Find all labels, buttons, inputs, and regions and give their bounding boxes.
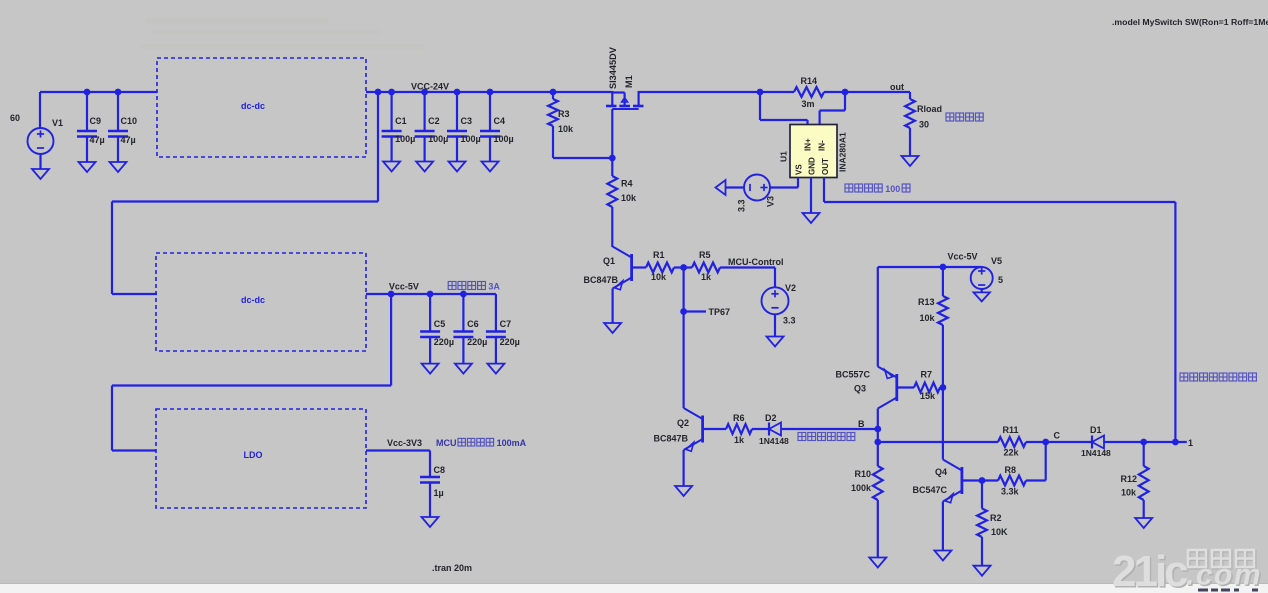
watermark dianziwang [1188,550,1255,568]
svg-text:3A: 3A [488,282,500,292]
resistor R2 [977,481,1008,566]
wire Q1 emitter to ground [611,289,613,324]
net label MCU-Control [728,257,784,267]
svg-text:Q2: Q2 [677,418,689,428]
svg-text:dc-dc: dc-dc [241,295,265,305]
wire C to D1 [1046,441,1092,443]
resistor R6 [726,413,752,445]
ground below C5 [422,364,439,374]
svg-text:21ic: 21ic [1112,547,1188,593]
annotation short-circuit protection [946,113,983,121]
svg-text:220µ: 220µ [467,337,487,347]
svg-text:MCU: MCU [436,438,457,448]
wire D2 to node B [781,428,878,430]
svg-text:U1: U1 [779,151,789,162]
ground below R2 [974,566,991,576]
wire R11 to C node [1026,441,1046,443]
wire V2 to ground [774,314,776,336]
svg-text:Q1: Q1 [603,256,615,266]
diode D2 1N4148 [759,413,789,446]
svg-text:Rload: Rload [917,104,942,114]
svg-text:R5: R5 [699,250,711,260]
svg-text:BC557C: BC557C [835,370,870,380]
svg-text:10k: 10k [920,313,936,323]
wire R14 to out node [824,91,910,93]
svg-text:3.3: 3.3 [737,199,747,212]
resistor Rload [905,92,942,156]
capacitor C10 [108,92,137,162]
svg-text:R1: R1 [653,250,665,260]
resistor R12 [1120,442,1148,518]
node dot B lower [874,439,881,446]
svg-text:R3: R3 [558,109,570,119]
wire R6 to D2 [752,428,769,430]
annotation self-lock output signal [798,433,855,441]
voltage source V5 [971,256,1003,292]
node dot Vcc5 feed [388,291,395,298]
svg-text:30: 30 [919,120,929,130]
svg-text:1N4148: 1N4148 [1081,448,1111,458]
ground left of V3 [716,180,726,195]
node dot R3 tap [550,89,557,96]
wire VS pin to V3 [770,178,798,188]
svg-text:R14: R14 [801,76,818,86]
svg-text:C8: C8 [434,465,446,475]
svg-text:1k: 1k [701,272,712,282]
svg-text:3m: 3m [802,99,815,109]
net label Vcc-3V3 [387,438,422,448]
svg-text:100µ: 100µ [428,134,448,144]
svg-text:1N4148: 1N4148 [759,436,789,446]
svg-text:220µ: 220µ [500,337,520,347]
wire R1 to junction [674,266,692,268]
wire box2 out Vcc-5V rail [366,293,496,295]
net label out [890,82,904,92]
resistor R5 [692,250,720,282]
svg-text:VCC-24V: VCC-24V [411,82,449,92]
svg-text:1: 1 [1188,438,1193,448]
svg-text:D2: D2 [765,413,777,423]
svg-text:IN-: IN- [818,140,827,151]
wire rail to Q3 emitter [877,267,879,367]
resistor R7 [914,370,940,402]
ground below U1 [803,213,820,223]
capacitor C4 [480,92,514,162]
ground below C2 [416,162,433,172]
ground below C7 [487,364,504,374]
cut text bottom edge [1198,589,1258,592]
voltage source V1 [10,92,63,169]
ground below R12 [1135,518,1152,528]
svg-text:C10: C10 [121,116,138,126]
svg-text:V3: V3 [766,196,776,207]
ground below C4 [482,162,499,172]
wire IN+ sense [760,92,808,125]
voltage source V2 [762,283,797,326]
svg-text:Q3: Q3 [854,384,866,394]
svg-text:100µ: 100µ [395,134,415,144]
resistor R13 [918,267,948,388]
wire IN- sense [820,92,845,125]
wire Vcc5 feed to LDO [112,294,391,451]
wire junction down to Q2 collector [682,268,684,409]
wire D1 to node 1 [1104,441,1187,443]
spice directive .model [1112,17,1268,27]
watermark .com [1186,559,1264,593]
ground below V5 [974,292,990,301]
node dot R14 left [757,89,764,96]
svg-text:1µ: 1µ [434,488,444,498]
diode D1 1N4148 [1081,425,1111,458]
node dot C [1042,439,1049,446]
svg-text:100mA: 100mA [497,438,527,448]
node dot B upper [874,426,881,433]
resistor R4 [607,158,637,247]
svg-text:100k: 100k [851,483,872,493]
ground below C6 [455,364,472,374]
ground below V2 [767,337,784,347]
node dot at x378 rail [375,89,382,96]
mosfet M1 SI3445DV [606,46,644,109]
svg-text:100: 100 [885,184,900,194]
svg-text:5: 5 [998,275,1003,285]
wire R5 to V2 [720,268,775,288]
wire Q4 base to junction [962,479,998,481]
ground below C8 [422,517,439,527]
svg-text:100µ: 100µ [461,134,481,144]
spice directive .tran [432,563,472,573]
svg-text:BC547C: BC547C [912,485,947,495]
svg-text:C2: C2 [428,116,440,126]
ground below R10 [869,558,886,568]
svg-text:R12: R12 [1120,474,1137,484]
svg-text:Vcc-5V: Vcc-5V [948,252,978,262]
net label 1 [1188,438,1193,448]
svg-text:R11: R11 [1003,425,1019,435]
transistor Q3 BC557C [835,367,896,409]
transistor Q1 BC847B [583,247,631,290]
resistor R11 [998,425,1026,458]
svg-text:C5: C5 [434,319,446,329]
svg-text:C1: C1 [395,116,407,126]
svg-text:10k: 10k [1121,488,1137,498]
ground below C1 [383,162,400,172]
transistor Q2 BC847B [653,408,702,451]
wire M1 drain to R14 [639,91,794,93]
net label TP67 [709,307,731,317]
transistor Q4 BC547C [912,460,961,503]
ground below Q1 [604,323,621,333]
svg-text:C3: C3 [461,116,473,126]
wire Q4 emitter to ground [942,502,944,551]
net label Vcc-5V [389,282,419,292]
capacitor C1 [382,92,416,162]
svg-text:47µ: 47µ [121,135,136,145]
node dot C6 tap [460,291,467,298]
capacitor C7 [486,294,520,364]
ground below Rload [902,156,919,166]
wire R8 to C riser [1026,442,1046,481]
svg-text:R7: R7 [921,370,933,380]
svg-text:C: C [1054,431,1061,441]
wire B to R11 [878,441,998,443]
svg-text:10k: 10k [558,124,574,134]
capacitor C8 [420,451,445,518]
capacitor C2 [415,92,449,162]
svg-text:out: out [890,82,904,92]
node dot 1 [1172,439,1179,446]
svg-text:15k: 15k [920,391,936,401]
net label B [858,419,865,429]
dc-dc converter block 2 [156,253,366,351]
svg-text:V5: V5 [991,256,1002,266]
svg-text:M1: M1 [624,75,634,88]
resistor R10 [851,466,883,558]
svg-text:GND: GND [808,157,817,175]
svg-text:10K: 10K [991,527,1008,537]
node dot TP67 [680,308,687,315]
svg-text:R13: R13 [918,297,935,307]
resistor R1 [646,250,674,282]
wire OUT pin to node 1 rail [824,178,1175,443]
svg-text:220µ: 220µ [434,337,454,347]
svg-text:47µ: 47µ [90,135,105,145]
resistor R14 [794,76,824,109]
capacitor C5 [420,294,454,364]
svg-text:SI3445DV: SI3445DV [608,46,618,89]
svg-text:Vcc-5V: Vcc-5V [389,282,419,292]
node dot R1-R5 junction [680,264,687,271]
ground below C9 [79,162,96,172]
wire Q2 emitter to ground [682,450,684,486]
svg-text:.tran 20m: .tran 20m [432,563,472,573]
capacitor C3 [447,92,481,162]
net label Vcc-5V right [948,252,978,262]
LDO block [156,409,366,508]
svg-text:3.3: 3.3 [783,316,796,326]
svg-text:INA280A1: INA280A1 [838,132,848,172]
node dot R7-R13 junction [940,384,947,391]
wire Q2 base to R6 [703,428,726,430]
wire LDO out Vcc-3V3 [366,449,430,451]
svg-text:C4: C4 [494,116,506,126]
net label VCC-24V [411,82,449,92]
node dot R14 right [842,89,849,96]
resistor R3 [548,92,574,158]
svg-text:22k: 22k [1004,448,1020,458]
svg-text:MCU-Control: MCU-Control [728,257,784,267]
capacitor C9 [77,92,105,162]
node dot gate junction [609,155,616,162]
svg-text:C6: C6 [467,319,479,329]
ghost text rows [140,18,425,50]
svg-text:R2: R2 [990,513,1002,523]
annotation working current 3A [448,282,500,292]
annotation MCU working current [436,438,527,448]
ground below C10 [110,162,127,172]
svg-text:R10: R10 [854,469,871,479]
node dot C4 tap [487,89,494,96]
svg-text:60: 60 [10,113,20,123]
node dot C9 [84,89,91,96]
op-amp U1 INA280A1 [779,125,848,178]
svg-text:BC847B: BC847B [583,275,618,285]
svg-text:R6: R6 [733,413,745,423]
svg-text:C9: C9 [90,116,102,126]
svg-text:LDO: LDO [244,450,263,460]
svg-text:V1: V1 [52,118,63,128]
node dot R12 tap [1140,439,1147,446]
svg-text:VS: VS [795,164,804,175]
ground below Q4 [934,551,951,561]
svg-text:C7: C7 [500,319,512,329]
annotation amplify 100x [845,184,910,194]
svg-text:BC847B: BC847B [653,434,688,444]
bottom white strip [0,584,1268,593]
svg-text:R8: R8 [1005,465,1017,475]
svg-text:TP67: TP67 [709,307,731,317]
svg-text:100µ: 100µ [494,134,514,144]
wire rail feed down-left [112,92,378,294]
ground below V1 [32,169,49,179]
wire V1 to dc-dc box1 [40,91,157,93]
svg-text:Q4: Q4 [935,467,947,477]
ground below Q2 [675,486,692,496]
wire R3 bottom to gate node [553,157,612,159]
wire Vcc-5V rail right [878,266,982,268]
svg-text:dc-dc: dc-dc [241,101,265,111]
dc-dc converter block 1 [157,58,366,157]
svg-text:10k: 10k [651,272,667,282]
svg-text:D1: D1 [1090,425,1102,435]
ground below C3 [449,162,466,172]
capacitor C6 [453,294,487,364]
node dot C2 tap [421,89,428,96]
svg-text:10k: 10k [621,193,637,203]
wire TP67 stub [684,310,706,312]
node dot R13 top [940,264,947,271]
svg-text:V2: V2 [785,283,796,293]
node dot C1 tap [388,89,395,96]
node dot C10 [115,89,122,96]
wire R7 to R13 line [940,386,943,388]
wire Q3 base to R7 [897,386,914,388]
wire R13 junction to Q4 collector [942,388,944,460]
wire V3 to ground left [726,186,744,188]
watermark 21ic [1112,547,1190,593]
resistor R8 [998,465,1026,497]
svg-text:Vcc-3V3: Vcc-3V3 [387,438,422,448]
node dot R8-R2 junction [979,477,986,484]
svg-text:.model MySwitch SW(Ron=1 Roff=: .model MySwitch SW(Ron=1 Roff=1Me [1112,17,1268,27]
svg-text:IN+: IN+ [804,138,813,151]
svg-text:OUT: OUT [821,158,830,175]
wire GND pin down [810,178,812,214]
wire Q3 collector to node B [877,409,879,467]
svg-text:3.3k: 3.3k [1001,487,1020,497]
net label C [1054,431,1061,441]
voltage source V3 [737,175,776,213]
svg-text:B: B [858,419,865,429]
svg-text:1k: 1k [734,435,745,445]
annotation current-to-voltage [1180,373,1256,381]
node dot C3 tap [454,89,461,96]
svg-text:R4: R4 [621,179,633,189]
svg-text:.com: .com [1186,559,1262,592]
wire M1 gate down [611,109,613,158]
node dot C5 tap [427,291,434,298]
wire Q1 base to R1 [632,266,646,268]
wire box1 to M1 source [366,91,612,93]
